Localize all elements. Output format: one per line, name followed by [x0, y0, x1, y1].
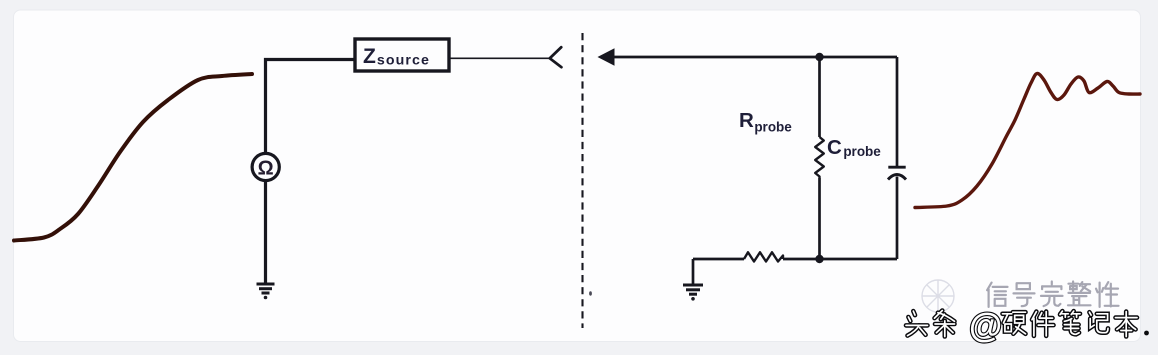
junction node (top of Rprobe) [815, 53, 823, 61]
junction node (bottom of Rprobe) [815, 255, 823, 263]
wire: Rprobe top lead [818, 57, 821, 137]
left source waveform (rising edge) [14, 74, 252, 241]
filled arrow pointing left [598, 48, 615, 66]
watermark gray text: xin hao wan zheng xing [987, 283, 1007, 307]
wire: Cprobe top lead [896, 57, 899, 166]
watermark period [1144, 331, 1149, 336]
resistor Rprobe (vertical zigzag) [815, 137, 824, 178]
Zsource box [355, 39, 449, 71]
stray speck near dashed line [589, 291, 592, 295]
top wire to right network [613, 56, 897, 59]
voltage source circle with omega [252, 153, 279, 180]
capacitor Cprobe [888, 166, 905, 169]
wire: source bottom vertical to ground [264, 181, 267, 283]
watermark outlined text: ying jian bi ji ben [1003, 312, 1026, 334]
wire: ground stub [692, 259, 695, 284]
ground (probe) [683, 285, 703, 294]
ground (source) [257, 284, 275, 293]
wire: Rprobe bottom lead [818, 178, 821, 259]
dashed separator line [581, 33, 583, 328]
svg-text:Ω: Ω [258, 158, 274, 180]
probe tip open arrowhead [550, 47, 562, 67]
wire: Cprobe bottom lead [896, 177, 899, 260]
faint logo flower [922, 280, 954, 312]
watermark outlined text: tou tiao [906, 311, 928, 336]
wire: source top vertical and horizontal to Zsource box [266, 60, 355, 153]
bottom wire [693, 258, 897, 261]
svg-text:@: @ [969, 307, 1002, 345]
resistor (horizontal, to ground) [744, 252, 783, 261]
thin wire from Zsource to probe tip [449, 57, 549, 59]
scoped waveform with ringing (right) [915, 73, 1140, 207]
